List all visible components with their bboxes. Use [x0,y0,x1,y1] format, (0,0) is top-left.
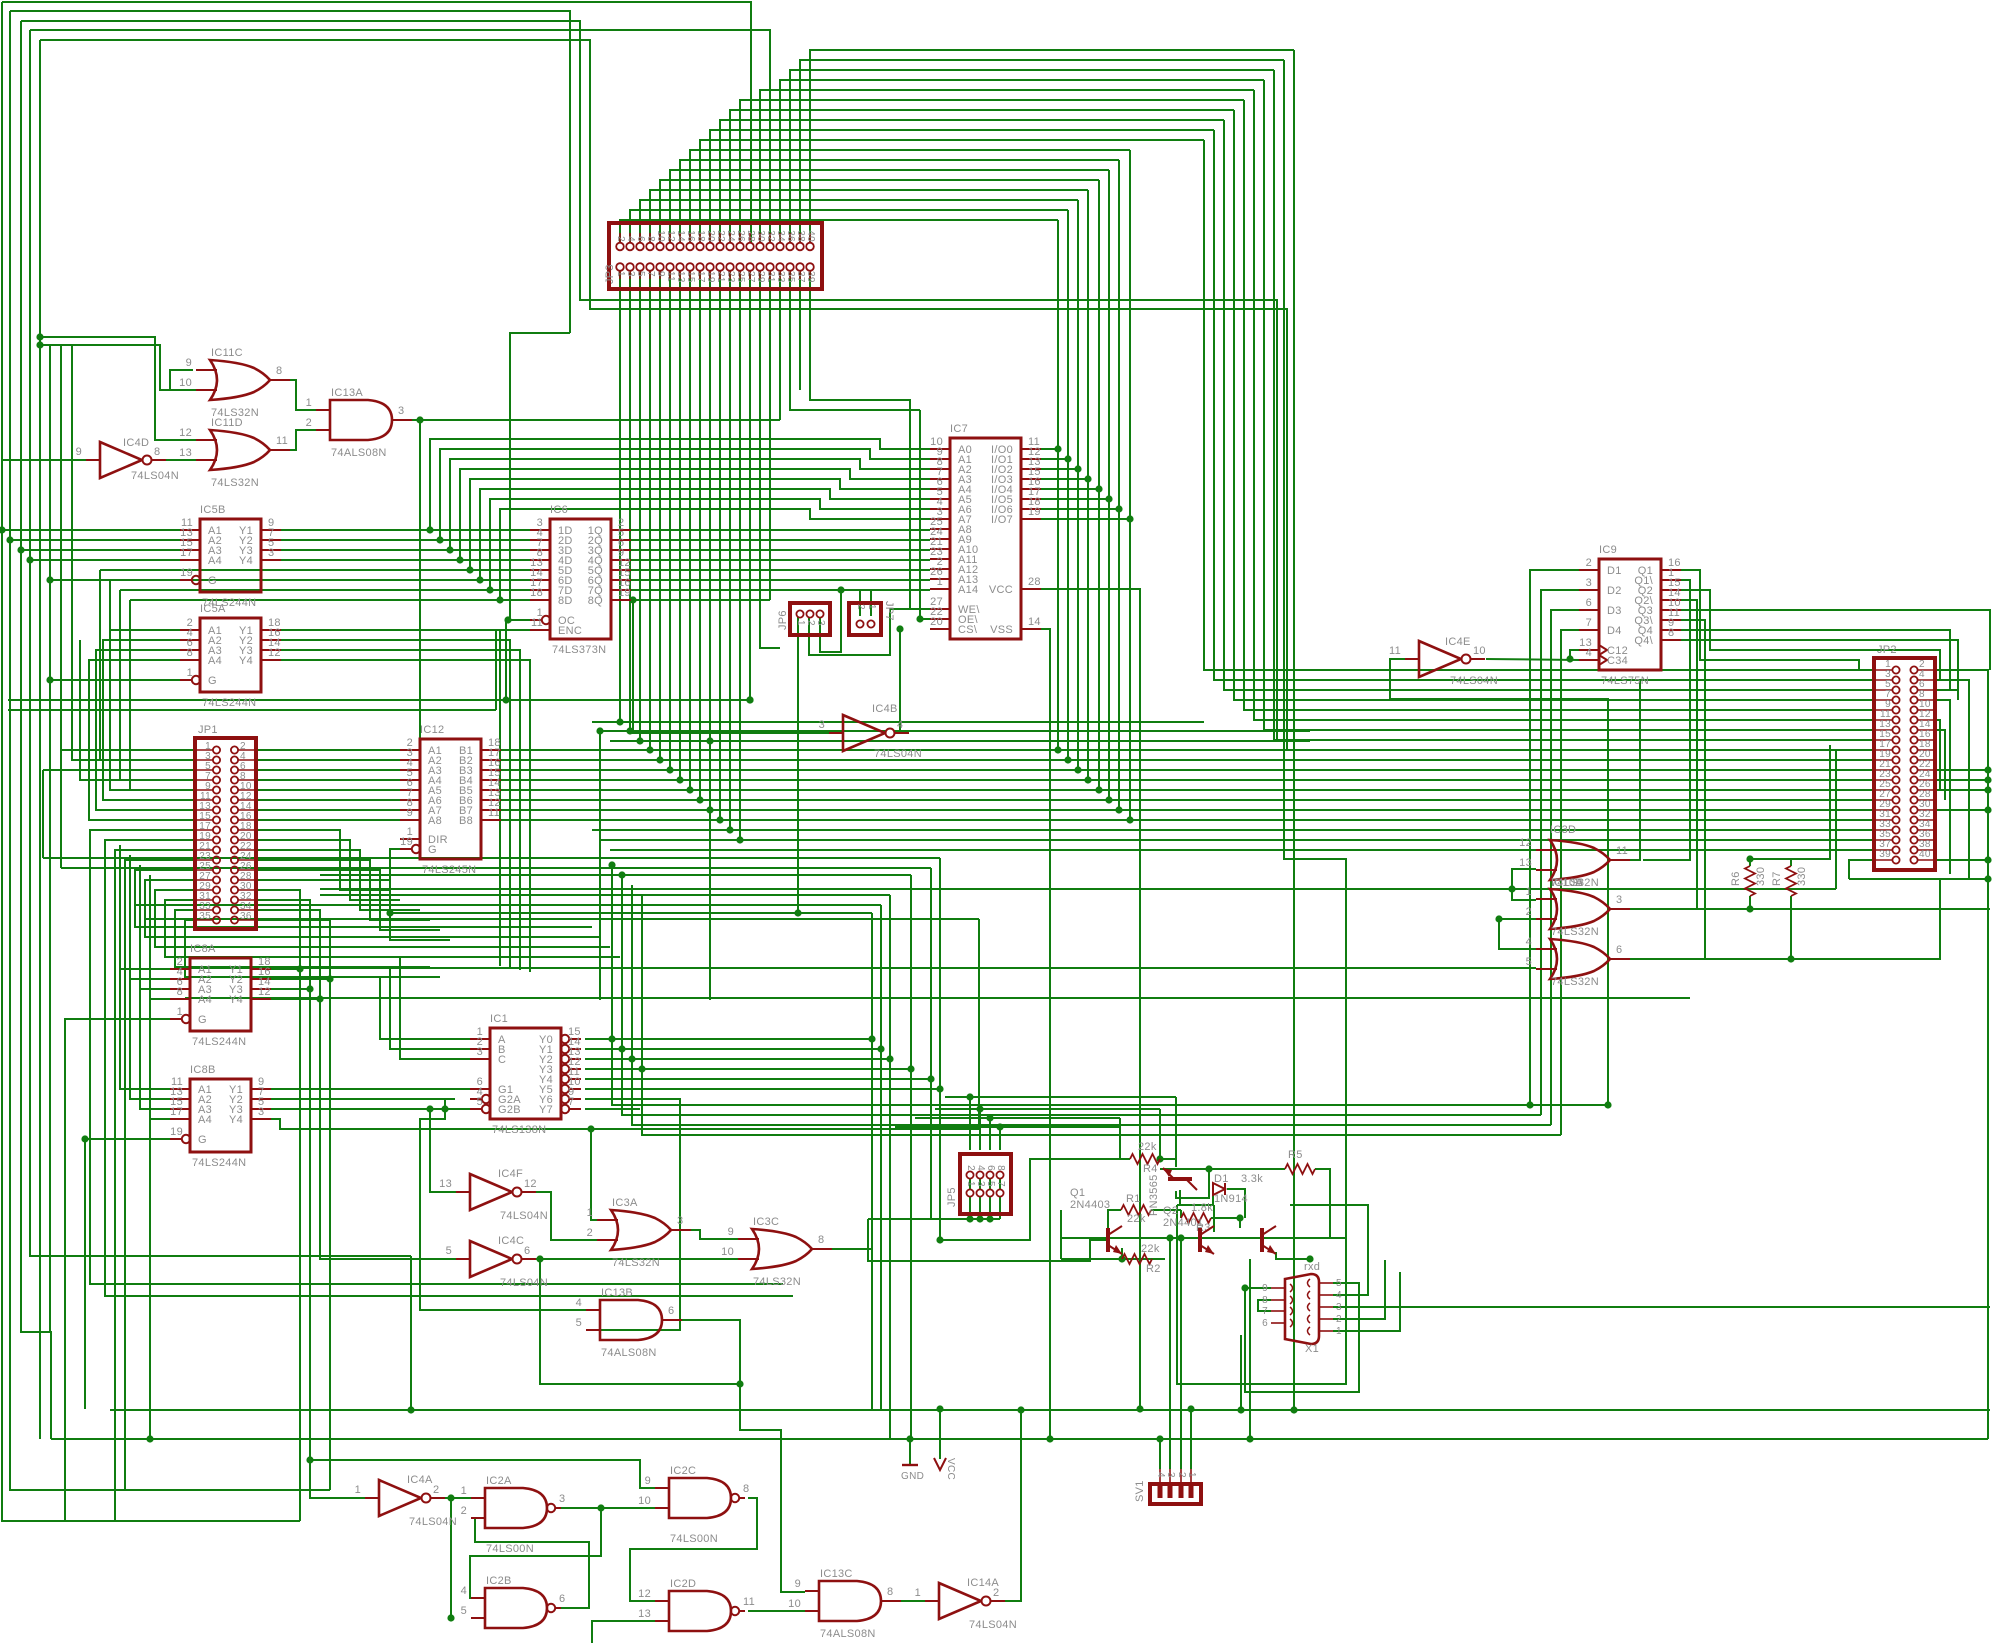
svg-text:330: 330 [1755,867,1767,886]
svg-text:2: 2 [1526,906,1532,918]
svg-text:2: 2 [805,620,816,626]
svg-text:IC8A: IC8A [190,943,216,955]
svg-text:IC12: IC12 [420,724,444,736]
svg-text:24: 24 [725,230,736,242]
svg-text:G2B: G2B [498,1104,521,1116]
svg-text:2: 2 [587,1227,593,1239]
svg-text:9: 9 [655,271,666,277]
svg-text:74LS32N: 74LS32N [211,477,259,489]
svg-text:6: 6 [668,1305,674,1317]
svg-text:JP6: JP6 [777,610,789,630]
svg-text:12: 12 [665,230,676,242]
svg-text:36: 36 [240,911,252,922]
svg-text:CS\: CS\ [958,624,978,636]
svg-text:9: 9 [407,807,413,819]
svg-text:11: 11 [1389,645,1401,657]
svg-text:8: 8 [177,986,183,998]
svg-text:A4: A4 [208,655,222,667]
svg-text:74LS04N: 74LS04N [131,470,179,482]
svg-text:6: 6 [985,1165,996,1171]
svg-text:2N4403: 2N4403 [1070,1199,1110,1211]
svg-text:10: 10 [1473,645,1486,657]
svg-text:74LS32N: 74LS32N [1551,976,1599,988]
svg-text:74LS245N: 74LS245N [422,864,476,876]
svg-text:11: 11 [665,271,676,282]
svg-text:8: 8 [887,1586,893,1598]
svg-text:39: 39 [1879,849,1891,860]
svg-text:74LS32N: 74LS32N [1551,926,1599,938]
svg-text:1: 1 [177,1006,183,1018]
svg-text:Y4: Y4 [239,555,253,567]
svg-text:1: 1 [615,271,626,277]
svg-text:8: 8 [154,446,160,458]
svg-text:74LS32N: 74LS32N [753,1276,801,1288]
svg-text:1: 1 [1336,1326,1342,1337]
svg-text:10: 10 [655,230,666,242]
svg-text:Y4: Y4 [239,655,253,667]
svg-text:12: 12 [179,427,192,439]
svg-text:11: 11 [276,435,288,447]
svg-text:3: 3 [258,1106,264,1118]
svg-text:4: 4 [1155,1472,1166,1478]
svg-text:74LS04N: 74LS04N [500,1277,548,1289]
svg-text:7: 7 [1586,617,1592,629]
svg-text:R7: R7 [1771,871,1783,886]
svg-text:5: 5 [635,271,646,277]
svg-text:8: 8 [818,1234,824,1246]
svg-text:IC4A: IC4A [407,1474,433,1486]
svg-text:IC2A: IC2A [486,1475,512,1487]
svg-text:9: 9 [795,1578,801,1590]
svg-text:6: 6 [1586,597,1592,609]
svg-text:C: C [498,1054,506,1066]
svg-text:10: 10 [638,1495,651,1507]
svg-text:JP3: JP3 [604,264,616,284]
svg-text:74LS04N: 74LS04N [969,1619,1017,1631]
svg-text:8: 8 [276,365,282,377]
svg-text:4: 4 [975,1165,986,1171]
svg-text:32: 32 [765,230,776,242]
svg-text:1: 1 [587,1207,593,1219]
svg-text:1: 1 [355,1484,361,1496]
svg-text:8: 8 [645,236,656,242]
svg-text:IC8B: IC8B [190,1064,216,1076]
svg-text:40: 40 [805,230,816,242]
svg-text:B8: B8 [459,815,473,827]
svg-text:12: 12 [268,647,281,659]
svg-text:12: 12 [638,1588,651,1600]
svg-text:2: 2 [461,1505,467,1517]
svg-text:13: 13 [439,1178,452,1190]
svg-text:IC5B: IC5B [200,504,226,516]
svg-text:3: 3 [1586,577,1592,589]
svg-text:37: 37 [795,271,806,283]
svg-text:2: 2 [855,604,866,610]
svg-text:11: 11 [1616,845,1628,857]
svg-text:30: 30 [755,230,766,242]
svg-text:IC13A: IC13A [331,387,363,399]
svg-text:7: 7 [568,1096,574,1108]
svg-text:R5: R5 [1288,1149,1303,1161]
svg-text:15: 15 [685,271,696,283]
svg-text:8: 8 [995,1165,1006,1171]
svg-text:2: 2 [1586,557,1592,569]
svg-text:3: 3 [975,1181,986,1187]
svg-text:3: 3 [268,547,274,559]
svg-text:74LS04N: 74LS04N [1450,675,1498,687]
svg-text:22k: 22k [1127,1213,1146,1225]
svg-text:rxd: rxd [1304,1261,1320,1273]
svg-text:R1: R1 [1126,1193,1141,1205]
svg-text:IC14A: IC14A [967,1577,999,1589]
svg-text:20: 20 [930,616,943,628]
svg-text:IC11C: IC11C [211,347,243,359]
svg-text:74LS244N: 74LS244N [192,1036,246,1048]
svg-text:8D: 8D [558,595,573,607]
svg-text:19: 19 [705,271,716,283]
svg-text:8: 8 [1262,1295,1268,1306]
svg-text:IC4C: IC4C [498,1235,524,1247]
svg-text:19: 19 [400,836,413,848]
svg-text:12: 12 [1519,837,1532,849]
svg-text:Q1: Q1 [1070,1187,1085,1199]
svg-text:5: 5 [446,1245,452,1257]
svg-text:8: 8 [743,1483,749,1495]
svg-text:2: 2 [965,1165,976,1171]
svg-text:74LS04N: 74LS04N [500,1210,548,1222]
svg-text:1: 1 [965,1181,976,1187]
svg-text:IC13B: IC13B [601,1287,633,1299]
svg-text:IC11D: IC11D [211,417,243,429]
svg-text:22: 22 [715,230,726,242]
svg-text:2: 2 [1176,1472,1187,1478]
svg-text:3: 3 [1165,1472,1176,1478]
svg-text:17: 17 [180,547,193,559]
svg-text:5: 5 [576,1317,582,1329]
svg-text:IC4F: IC4F [498,1168,523,1180]
svg-text:26: 26 [735,230,746,242]
svg-text:13: 13 [1519,857,1532,869]
svg-text:1: 1 [866,604,877,610]
svg-text:10: 10 [721,1246,734,1258]
svg-text:74LS244N: 74LS244N [202,697,256,709]
svg-text:11: 11 [531,617,543,629]
svg-text:7: 7 [645,271,656,277]
svg-text:17: 17 [695,271,706,283]
svg-text:4: 4 [897,719,903,731]
svg-text:A14: A14 [958,584,978,596]
svg-text:17: 17 [170,1106,183,1118]
svg-text:A4: A4 [198,994,212,1006]
svg-text:D1: D1 [1214,1173,1229,1185]
svg-text:29: 29 [755,271,766,283]
svg-text:3: 3 [1616,894,1622,906]
svg-text:Y4: Y4 [229,994,243,1006]
svg-text:IC3D: IC3D [1550,824,1576,836]
svg-text:VCC: VCC [989,584,1013,596]
svg-text:3: 3 [559,1493,565,1505]
svg-text:13: 13 [638,1608,651,1620]
svg-text:18: 18 [530,587,543,599]
svg-text:Q4\: Q4\ [1634,635,1653,647]
svg-text:JP5: JP5 [946,1187,958,1207]
svg-text:13: 13 [179,447,192,459]
svg-text:1: 1 [1526,886,1532,898]
svg-text:D4: D4 [1607,625,1622,637]
svg-text:1N914: 1N914 [1214,1193,1248,1205]
svg-text:74LS04N: 74LS04N [874,748,922,760]
svg-text:5: 5 [1336,1278,1342,1289]
svg-text:9: 9 [76,446,82,458]
svg-text:8: 8 [1668,627,1674,639]
svg-text:1: 1 [915,1587,921,1599]
svg-text:G: G [198,1014,207,1026]
svg-text:14: 14 [1028,616,1041,628]
svg-text:6: 6 [635,236,646,242]
svg-text:IC2C: IC2C [670,1465,696,1477]
svg-text:2N4401: 2N4401 [1163,1217,1203,1229]
svg-text:74LS32N: 74LS32N [612,1257,660,1269]
svg-text:5: 5 [477,1096,483,1108]
svg-text:19: 19 [180,567,193,579]
svg-text:36: 36 [785,230,796,242]
svg-text:C34: C34 [1607,655,1628,667]
svg-text:6: 6 [1616,944,1622,956]
svg-text:2: 2 [1336,1314,1342,1325]
svg-text:IC4E: IC4E [1445,636,1471,648]
svg-text:IC2B: IC2B [486,1575,512,1587]
svg-text:R6: R6 [1730,871,1742,886]
svg-text:VSS: VSS [990,624,1013,636]
svg-text:10: 10 [179,377,192,389]
svg-text:12: 12 [258,986,271,998]
svg-text:A4: A4 [198,1114,212,1126]
svg-text:D3: D3 [1607,605,1622,617]
svg-text:1: 1 [1186,1472,1197,1478]
svg-text:7: 7 [1262,1306,1268,1317]
svg-text:IC4D: IC4D [123,437,149,449]
svg-text:IC9: IC9 [1599,544,1617,556]
svg-text:74LS00N: 74LS00N [486,1543,534,1555]
svg-text:G: G [208,675,217,687]
svg-text:21: 21 [715,271,726,283]
svg-text:IC6: IC6 [550,504,568,516]
svg-text:74ALS08N: 74ALS08N [331,447,387,459]
svg-text:G: G [198,1134,207,1146]
svg-text:3: 3 [625,271,636,277]
svg-text:3: 3 [677,1215,683,1227]
svg-text:Y7: Y7 [539,1104,553,1116]
svg-text:11: 11 [488,807,500,819]
svg-text:R4: R4 [1143,1163,1158,1175]
svg-text:I/O7: I/O7 [991,514,1013,526]
svg-text:Q2: Q2 [1163,1205,1178,1217]
svg-text:X1: X1 [1305,1343,1319,1355]
svg-text:2: 2 [433,1484,439,1496]
svg-text:R2: R2 [1146,1263,1161,1275]
svg-text:2: 2 [306,417,312,429]
svg-text:1: 1 [937,576,943,588]
svg-text:IC1: IC1 [490,1013,508,1025]
svg-text:9: 9 [645,1475,651,1487]
svg-text:A8: A8 [428,815,442,827]
svg-text:74LS373N: 74LS373N [552,644,606,656]
svg-text:13: 13 [675,271,686,283]
svg-text:PN3565: PN3565 [1148,1174,1160,1216]
svg-text:39: 39 [805,271,816,283]
svg-text:35: 35 [785,271,796,283]
svg-text:74ALS08N: 74ALS08N [820,1628,876,1640]
svg-text:JP1: JP1 [198,724,218,736]
svg-text:GND: GND [901,1471,924,1482]
svg-text:16: 16 [685,230,696,242]
svg-text:6: 6 [1262,1318,1268,1329]
svg-text:14: 14 [675,230,686,242]
svg-text:74LS00N: 74LS00N [670,1533,718,1545]
svg-text:IC7: IC7 [950,423,968,435]
svg-text:IC5A: IC5A [200,603,226,615]
svg-text:8: 8 [187,647,193,659]
svg-text:IC3A: IC3A [612,1197,638,1209]
svg-text:19: 19 [1028,506,1041,518]
svg-text:1.8k: 1.8k [1191,1202,1213,1214]
svg-text:34: 34 [775,230,786,242]
svg-text:27: 27 [745,271,756,283]
svg-text:1: 1 [187,667,193,679]
svg-text:G: G [208,575,217,587]
svg-text:38: 38 [795,230,806,242]
svg-text:G: G [428,844,437,856]
svg-text:IC4B: IC4B [872,703,898,715]
svg-text:74LS04N: 74LS04N [409,1516,457,1528]
svg-text:6: 6 [559,1593,565,1605]
svg-text:22k: 22k [1141,1243,1160,1255]
svg-text:2: 2 [615,236,626,242]
svg-text:74LS138N: 74LS138N [492,1124,546,1136]
svg-text:12: 12 [524,1178,537,1190]
svg-text:74LS244N: 74LS244N [192,1157,246,1169]
svg-text:6: 6 [524,1245,530,1257]
svg-text:28: 28 [1028,576,1041,588]
svg-text:28: 28 [745,230,756,242]
svg-text:4: 4 [1336,1290,1342,1301]
svg-text:Y4: Y4 [229,1114,243,1126]
svg-text:19: 19 [170,1126,183,1138]
svg-text:4: 4 [576,1297,582,1309]
svg-text:9: 9 [1262,1283,1268,1294]
svg-text:330: 330 [1796,867,1808,886]
svg-text:3.3k: 3.3k [1241,1173,1263,1185]
svg-text:ENC: ENC [558,625,582,637]
svg-text:74LS75N: 74LS75N [1601,675,1649,687]
svg-text:3: 3 [398,405,404,417]
svg-text:IC10B: IC10B [1551,877,1583,889]
svg-text:3: 3 [1336,1302,1342,1313]
svg-text:1: 1 [795,620,806,626]
svg-text:1: 1 [461,1485,467,1497]
svg-text:40: 40 [1919,849,1931,860]
svg-text:1: 1 [306,397,312,409]
svg-text:3: 3 [815,620,826,626]
svg-text:8Q: 8Q [588,595,603,607]
svg-text:18: 18 [695,230,706,242]
svg-text:9: 9 [728,1226,734,1238]
svg-text:3: 3 [477,1046,483,1058]
svg-text:74ALS08N: 74ALS08N [601,1347,657,1359]
svg-text:5: 5 [1526,956,1532,968]
svg-text:5: 5 [985,1181,996,1187]
svg-text:A4: A4 [208,555,222,567]
svg-text:D1: D1 [1607,565,1622,577]
svg-text:IC13C: IC13C [820,1568,853,1580]
svg-text:4: 4 [625,236,636,242]
svg-text:9: 9 [186,357,192,369]
svg-text:JP7: JP7 [883,601,895,621]
svg-text:VCC: VCC [945,1458,956,1480]
svg-text:31: 31 [765,271,776,283]
svg-text:25: 25 [735,271,746,283]
svg-text:5: 5 [461,1605,467,1617]
svg-text:10: 10 [788,1598,801,1610]
svg-text:22k: 22k [1138,1141,1157,1153]
svg-text:SV1: SV1 [1134,1480,1146,1502]
svg-text:JP2: JP2 [1877,644,1897,656]
svg-text:D2: D2 [1607,585,1622,597]
svg-text:4: 4 [1526,936,1532,948]
svg-text:33: 33 [775,271,786,283]
svg-text:4: 4 [461,1585,467,1597]
svg-text:11: 11 [743,1596,755,1608]
svg-text:4: 4 [1586,647,1592,659]
svg-text:35: 35 [199,911,211,922]
svg-text:20: 20 [705,230,716,242]
svg-text:19: 19 [618,587,631,599]
svg-text:23: 23 [725,271,736,283]
svg-text:IC3C: IC3C [753,1216,779,1228]
svg-text:3: 3 [819,719,825,731]
svg-text:7: 7 [995,1181,1006,1187]
svg-text:IC2D: IC2D [670,1578,696,1590]
